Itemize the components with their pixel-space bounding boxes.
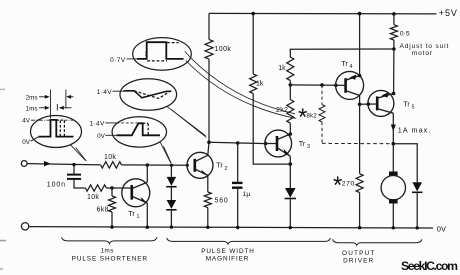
svg-text:1k: 1k	[278, 65, 286, 72]
diode D1	[170, 165, 172, 177]
pulse waveform D	[117, 123, 161, 135]
wire Tr5 emitter	[392, 113, 394, 144]
svg-text:1: 1	[137, 214, 140, 220]
capacitor C2 1u	[237, 143, 239, 182]
brace output driver	[333, 239, 423, 245]
svg-text:0·7V: 0·7V	[110, 57, 126, 64]
svg-text:+5V: +5V	[439, 8, 458, 18]
resistor 1k upper	[289, 81, 291, 85]
svg-text:3: 3	[307, 144, 310, 150]
svg-text:1·4V: 1·4V	[89, 121, 105, 128]
brace pulse width magnifier	[167, 238, 331, 244]
svg-text:0V: 0V	[22, 139, 31, 146]
node Tr1 collector	[146, 163, 149, 166]
svg-text:SeekIC.com: SeekIC.com	[401, 259, 458, 273]
resistor 8k2 optional dashed	[321, 85, 323, 105]
pulse waveform A	[39, 120, 74, 137]
diode D3	[289, 164, 291, 188]
svg-text:4: 4	[350, 64, 353, 70]
svg-text:Tr: Tr	[341, 59, 348, 68]
waveform balloon A 4V pulse	[31, 116, 87, 162]
svg-text:Tr: Tr	[216, 161, 223, 170]
waveform balloon D 1.4V narrow pulse	[112, 117, 171, 164]
brace pulse shortener	[62, 237, 158, 243]
svg-text:1µ: 1µ	[243, 191, 251, 198]
2ms annotation	[26, 94, 74, 101]
node Tr3 emitter junction	[289, 156, 291, 164]
measurement ticks	[50, 90, 52, 119]
resistor 270	[359, 104, 361, 173]
svg-text:4V: 4V	[22, 118, 31, 125]
node 1u	[236, 141, 240, 145]
svg-text:100n: 100n	[47, 181, 66, 188]
svg-text:1ms: 1ms	[26, 105, 38, 112]
resistor 6k8	[111, 188, 113, 196]
svg-text:1ms: 1ms	[101, 247, 114, 254]
node Tr2 base edge	[186, 164, 189, 167]
svg-text:OUTPUT: OUTPUT	[342, 250, 375, 257]
svg-text:DRIVER: DRIVER	[343, 258, 374, 265]
svg-text:motor: motor	[412, 50, 433, 57]
svg-text:0V: 0V	[437, 225, 446, 234]
svg-text:Tr: Tr	[299, 139, 306, 148]
waveform balloon C 1.4V ramp	[120, 79, 206, 138]
svg-text:Tr: Tr	[403, 99, 410, 108]
svg-text:6k8: 6k8	[97, 206, 109, 213]
resistor 2k2	[287, 100, 294, 124]
diode D2	[170, 188, 172, 201]
svg-text:270: 270	[342, 180, 355, 187]
1ms annotation	[26, 105, 72, 112]
transistor Q Tr3	[265, 130, 292, 157]
svg-text:1A max.: 1A max.	[398, 125, 432, 134]
node 6k8	[110, 186, 113, 189]
node Tr3 base edge	[264, 142, 268, 146]
wire bias to Tr4 base	[290, 84, 336, 86]
resistor 1k left	[251, 12, 255, 16]
input terminal top	[21, 161, 27, 167]
svg-text:0V: 0V	[97, 133, 106, 140]
ramp waveform C	[124, 91, 172, 98]
wire input	[27, 164, 100, 165]
svg-text:2ms: 2ms	[26, 94, 38, 101]
input terminal bottom	[21, 223, 28, 230]
transistor Q Tr5	[360, 90, 394, 116]
waveform balloon B 0.7V pulse	[133, 38, 297, 119]
svg-text:PULSE SHORTENER: PULSE SHORTENER	[72, 255, 148, 262]
svg-text:1k: 1k	[256, 80, 264, 87]
svg-text:Tr: Tr	[128, 209, 135, 218]
resistor 100k	[208, 13, 210, 39]
svg-text:2: 2	[225, 166, 228, 172]
transistor Q Tr4	[336, 71, 364, 99]
svg-text:100k: 100k	[215, 46, 232, 53]
capacitor C1 100n	[73, 165, 75, 174]
svg-text:MAGNIFIER: MAGNIFIER	[206, 256, 250, 263]
0V rail	[28, 227, 433, 228]
transistor Q Tr1	[122, 165, 150, 229]
wire to Tr2 base	[122, 164, 188, 166]
node Tr3 collector edge	[289, 132, 293, 136]
svg-text:1·4V: 1·4V	[97, 89, 113, 96]
node diode chain	[170, 164, 173, 167]
diode D4 freewheel	[393, 144, 417, 183]
node: cap junction	[72, 163, 75, 166]
node Tr2 collector	[207, 140, 211, 144]
+5V rail	[209, 12, 437, 15]
svg-text:5: 5	[412, 105, 415, 111]
svg-text:0·5: 0·5	[400, 30, 410, 37]
resistor 560	[207, 175, 209, 192]
input arrow	[44, 161, 51, 167]
resistor R 10k top	[101, 162, 122, 168]
svg-text:10k: 10k	[104, 154, 116, 161]
resistor 10k lower	[85, 185, 106, 191]
svg-text:560: 560	[215, 198, 229, 205]
wire collector node to Tr3 base	[209, 142, 266, 143]
motor M	[392, 144, 394, 172]
svg-text:10k: 10k	[87, 194, 99, 201]
node bias	[289, 83, 293, 87]
wire to Tr1 base	[106, 187, 132, 189]
svg-text:PULSE WIDTH: PULSE WIDTH	[201, 248, 255, 255]
resistor 0.5	[392, 12, 396, 16]
svg-text:8k2: 8k2	[307, 113, 318, 119]
transistor Q Tr2	[187, 152, 213, 178]
pulse waveform B	[137, 42, 184, 59]
